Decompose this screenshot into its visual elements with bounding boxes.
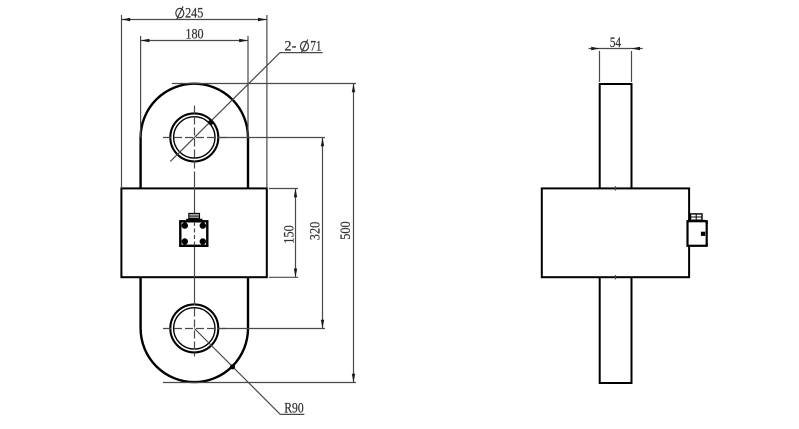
svg-text:180: 180 (185, 26, 203, 42)
svg-text:245: 245 (185, 6, 203, 22)
svg-text:320: 320 (308, 222, 324, 240)
svg-text:500: 500 (338, 221, 354, 239)
svg-text:R90: R90 (284, 401, 303, 417)
svg-text:2-: 2- (284, 39, 296, 55)
svg-text:150: 150 (282, 225, 298, 243)
svg-text:71: 71 (310, 39, 321, 55)
